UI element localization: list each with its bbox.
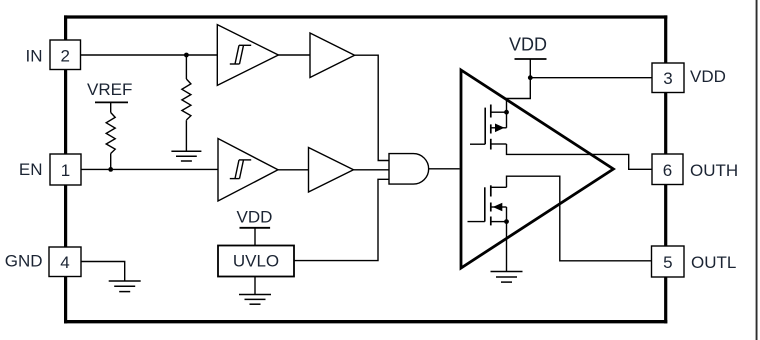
hysteresis glyph U2 — [230, 160, 251, 179]
pin 6 box — [652, 154, 683, 185]
ground at pin4 — [109, 281, 141, 292]
svg-text:5: 5 — [663, 253, 672, 272]
op-amp style output stage triangle — [461, 70, 613, 268]
svg-text:6: 6 — [663, 161, 672, 180]
wire IN pin2 to schmitt U1 — [81, 54, 218, 56]
schmitt trigger U1 (IN) — [217, 25, 278, 86]
wire EN pin1 to schmitt U2 — [81, 168, 218, 170]
node junction dot on EN line — [108, 167, 113, 172]
schmitt trigger U2 (EN) — [218, 139, 278, 202]
svg-text:IN: IN — [26, 46, 43, 65]
pin 4 box — [49, 247, 81, 277]
svg-text:3: 3 — [663, 69, 672, 88]
svg-text:OUTH: OUTH — [690, 161, 738, 180]
resistor R2 (IN pulldown) — [182, 55, 191, 151]
ground under Q2 — [491, 272, 523, 283]
wire VDD to pin3 — [530, 77, 652, 79]
svg-text:VDD: VDD — [237, 208, 273, 227]
node VDD junction dot — [528, 75, 533, 80]
wire U4 out to AND middle input — [354, 169, 390, 171]
svg-text:EN: EN — [19, 160, 43, 179]
transistor Q2 (low side) — [468, 185, 507, 225]
pin 2 box — [50, 40, 81, 70]
svg-text:1: 1 — [61, 161, 70, 180]
wire U3 out to AND top input — [355, 55, 389, 160]
node Q1 source dot — [504, 110, 509, 115]
IC boundary right border segments — [664, 15, 667, 63]
svg-text:VDD: VDD — [509, 35, 547, 55]
ground under UVLO — [254, 277, 256, 295]
svg-text:VDD: VDD — [690, 67, 726, 86]
wire AND out to output stage — [429, 168, 460, 170]
wire pin4 to ground — [81, 262, 125, 282]
UVLO block — [218, 246, 294, 277]
pin 3 box — [652, 63, 684, 93]
wire Q1 drain to OUTH pin6 — [507, 144, 653, 169]
pin 1 box — [50, 154, 81, 185]
buffer U4 — [309, 148, 354, 193]
pin 5 box — [652, 246, 685, 277]
wire Q2 drain to OUTL pin5 — [507, 176, 652, 261]
buffer U3 — [310, 33, 355, 78]
svg-text:GND: GND — [5, 251, 43, 270]
svg-text:VREF: VREF — [87, 80, 132, 99]
transistor Q1 (high side) — [470, 105, 507, 150]
wire VDD down to Q1 source — [507, 78, 531, 113]
svg-text:2: 2 — [60, 46, 69, 65]
svg-text:4: 4 — [60, 253, 69, 272]
IC boundary top border — [64, 15, 667, 18]
resistor R1 (VREF pull) — [95, 102, 128, 169]
svg-text:OUTL: OUTL — [691, 253, 736, 272]
node junction dot on IN line — [184, 53, 189, 58]
hysteresis glyph U1 — [230, 45, 251, 64]
wire U1 out to buffer U3 — [278, 54, 310, 56]
IC boundary left border segments — [64, 15, 67, 40]
page right edge rule — [756, 0, 758, 340]
wire U2 out to buffer U4 — [278, 169, 309, 171]
IC boundary bottom border — [64, 320, 667, 323]
AND gate U5 — [389, 154, 429, 185]
wire Q2 source to ground — [506, 222, 508, 272]
wire UVLO out to AND bottom input — [294, 179, 389, 260]
svg-text:UVLO: UVLO — [233, 252, 279, 271]
ground under R2 — [171, 151, 201, 161]
node Q2 source dot — [504, 219, 509, 224]
